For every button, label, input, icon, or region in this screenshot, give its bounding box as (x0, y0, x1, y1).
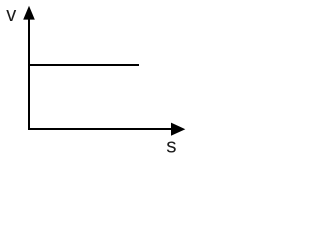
svg-text:v: v (6, 4, 16, 26)
svg-text:s: s (166, 135, 176, 158)
